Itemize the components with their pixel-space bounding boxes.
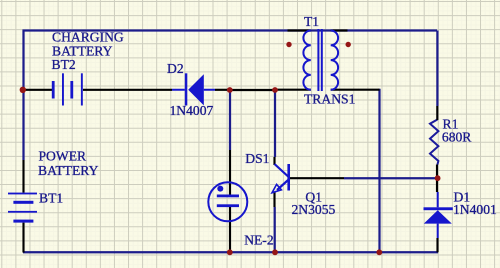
svg-text:1N4001: 1N4001 <box>453 202 497 217</box>
svg-text:1N4007: 1N4007 <box>170 103 214 118</box>
svg-text:TRANS1: TRANS1 <box>304 91 355 106</box>
svg-text:BATTERY: BATTERY <box>38 163 99 178</box>
svg-text:NE-2: NE-2 <box>244 232 274 247</box>
svg-text:DS1: DS1 <box>245 151 269 166</box>
svg-text:680R: 680R <box>442 130 472 145</box>
svg-text:BT2: BT2 <box>52 57 76 72</box>
svg-text:BT1: BT1 <box>39 190 63 205</box>
svg-text:POWER: POWER <box>39 149 88 164</box>
svg-text:CHARGING: CHARGING <box>52 29 124 44</box>
svg-text:2N3055: 2N3055 <box>292 202 336 217</box>
svg-text:D2: D2 <box>167 61 184 76</box>
svg-text:T1: T1 <box>304 14 319 29</box>
